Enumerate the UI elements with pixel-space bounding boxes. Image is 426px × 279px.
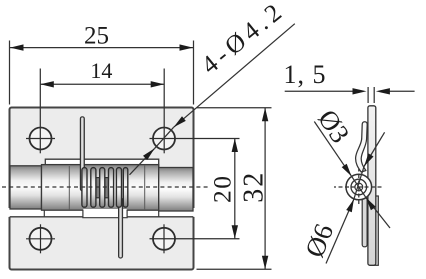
- barrel joint line left: [68, 166, 70, 210]
- spring leg (side): [362, 197, 367, 247]
- spring left leg: [80, 117, 84, 191]
- diameter lines through section: [352, 176, 367, 198]
- back leaf lower strip: [371, 196, 379, 265]
- leader second arrow at hole: [130, 148, 155, 174]
- leader 4-dia4.2: [174, 24, 295, 128]
- dimension 32: [197, 108, 272, 270]
- leader dia6: [326, 199, 354, 263]
- svg-text:20: 20: [207, 174, 236, 203]
- corner hole top-left: [26, 128, 55, 150]
- barrel middle knuckle cylinder: [42, 165, 159, 211]
- dimension 25: [10, 41, 194, 105]
- barrel section circles: [346, 174, 372, 200]
- spring coil loops: [82, 168, 128, 208]
- corner hole top-right: [150, 128, 240, 150]
- barrel bottom gap: [8, 208, 195, 217]
- barrel right cylinder: [159, 168, 193, 212]
- corner hole bottom-right: [150, 224, 240, 253]
- svg-text:1, 5: 1, 5: [284, 60, 327, 89]
- crosshair centerlines: [334, 186, 384, 188]
- centerline front view: [2, 186, 211, 188]
- spring right leg: [119, 198, 123, 258]
- spring center block: [96, 178, 111, 198]
- dimension 1,5: [285, 87, 415, 103]
- barrel top notch cut: [45, 159, 158, 168]
- svg-text:32: 32: [239, 171, 270, 203]
- back leaf top: [356, 122, 368, 172]
- corner hole bottom-left: [26, 224, 55, 253]
- hinge leaf plate (front view): [10, 108, 194, 270]
- barrel left cylinder: [10, 166, 42, 209]
- dimension 14: [40, 69, 164, 154]
- barrel joint line right: [144, 165, 146, 210]
- coil housing seat below: [83, 209, 127, 218]
- svg-text:14: 14: [90, 58, 112, 83]
- dimension 20: [234, 139, 236, 239]
- leader dia3: [314, 122, 351, 177]
- side leaf strip: [368, 106, 376, 265]
- svg-text:25: 25: [84, 23, 109, 50]
